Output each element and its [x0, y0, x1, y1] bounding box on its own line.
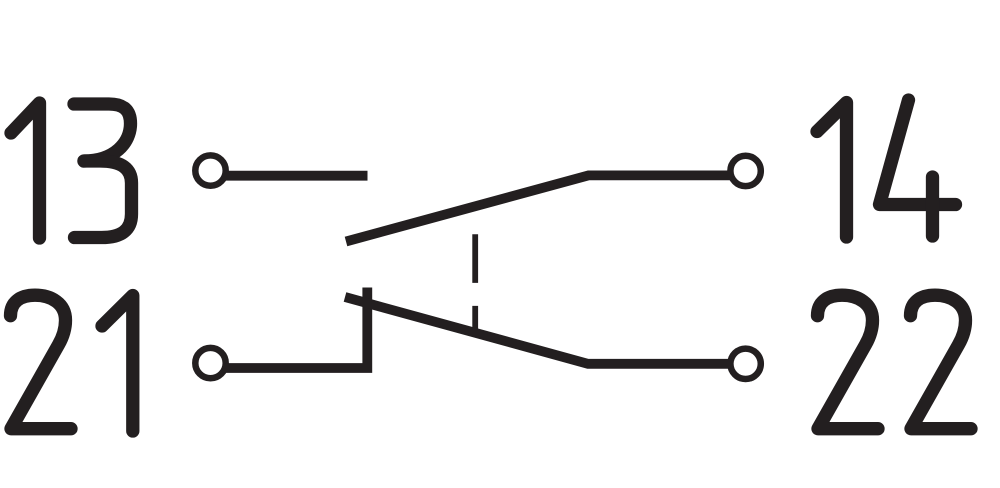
- terminal label 21: [11, 295, 133, 431]
- terminal circle 14: [730, 156, 760, 186]
- wire from terminal 13: [223, 171, 368, 181]
- terminal label 14: [817, 100, 956, 237]
- terminal label 22: [818, 295, 972, 429]
- NC moving contact wire to 22: [345, 297, 732, 364]
- terminal circle 22: [730, 349, 760, 379]
- terminal circle 21: [195, 348, 225, 378]
- terminal label 13: [11, 103, 132, 238]
- actuator dashed link: [472, 234, 478, 330]
- wire from terminal 21 with fixed contact riser: [223, 288, 367, 369]
- NO moving contact wire to 14: [346, 175, 732, 241]
- terminal circle 13: [195, 155, 225, 185]
